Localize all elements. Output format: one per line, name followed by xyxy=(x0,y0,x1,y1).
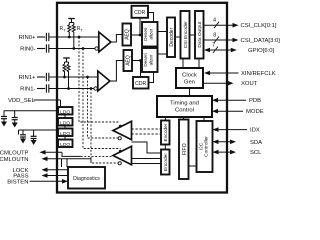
pin CMLOUTN xyxy=(0,157,64,163)
svg-text:Timing and: Timing and xyxy=(170,101,199,107)
CML driver B xyxy=(113,146,132,165)
supply rail 2 xyxy=(19,130,59,135)
wire CML A to Encoder1 xyxy=(132,142,162,153)
wire Encoder0 to Encoder1 xyxy=(164,145,166,150)
ground 2 xyxy=(12,123,18,128)
svg-text:MODE: MODE xyxy=(246,109,264,115)
block CSI Encoder xyxy=(181,11,190,59)
block Clock Gen xyxy=(176,68,203,88)
block Deserializer ch1 xyxy=(142,48,158,72)
dashed wires CML A to Encoder0 xyxy=(132,129,162,134)
wire Timing to Encoder0 xyxy=(165,117,167,121)
center tap cap ch1 xyxy=(63,58,70,62)
wire buffer0 to AEQ0 xyxy=(111,35,123,43)
wire Decoder to CSI Encoder xyxy=(175,36,181,38)
pin label SCL xyxy=(250,150,262,156)
wire RIN1- to buffer xyxy=(49,88,94,90)
pin VDD_SEL xyxy=(8,98,61,104)
block Diagnostics xyxy=(68,167,105,189)
pin RIN0- xyxy=(20,46,45,52)
bus slash 7 xyxy=(212,43,218,54)
wire RIN0- to buffer xyxy=(49,48,95,50)
svg-text:7: 7 xyxy=(212,43,215,49)
svg-text:IDX: IDX xyxy=(250,128,260,134)
wire Timing to I2C xyxy=(203,117,205,121)
node CDR1 junction xyxy=(139,59,142,77)
node dot RT right on RIN0- xyxy=(72,47,75,50)
node tap RIN0+ xyxy=(78,36,81,39)
svg-text:CMLOUTN: CMLOUTN xyxy=(0,157,29,163)
node tap RIN0- xyxy=(82,47,85,50)
wire VDD_SEL to LDO1 xyxy=(60,100,62,107)
svg-text:Decoder: Decoder xyxy=(169,27,175,46)
resistor RT right ch1 xyxy=(67,62,70,89)
pin CMLOUTP xyxy=(0,150,62,156)
node dot RT left on RIN0+ xyxy=(68,36,71,39)
wire RIN0+ to buffer xyxy=(49,36,99,38)
block Timing and Control xyxy=(157,96,212,117)
CML driver A xyxy=(113,121,132,140)
block FIFO xyxy=(179,120,189,180)
svg-text:Diagnostics: Diagnostics xyxy=(73,176,100,182)
svg-text:RIN1-: RIN1- xyxy=(20,86,35,92)
wire CML to Diagnostics xyxy=(62,159,68,167)
svg-text:Control: Control xyxy=(175,108,194,114)
wire buffer1 to AEQ1 xyxy=(110,61,124,82)
svg-text:RIN0+: RIN0+ xyxy=(19,35,36,41)
block Decoder xyxy=(167,18,175,58)
bypass cap 4 xyxy=(31,130,37,141)
svg-text:GPIO[6:0]: GPIO[6:0] xyxy=(248,48,275,54)
block LDO1 xyxy=(58,107,73,115)
pin label XOUT xyxy=(241,81,258,87)
pin label GPIO xyxy=(248,48,275,54)
bus slash 4 xyxy=(213,18,219,29)
svg-text:8: 8 xyxy=(213,33,216,39)
pin label IDX xyxy=(250,128,260,134)
svg-text:Controller: Controller xyxy=(204,136,210,157)
bypass cap 2 xyxy=(12,111,18,124)
wire LDO chain xyxy=(64,115,66,140)
svg-text:alizer: alizer xyxy=(148,28,153,39)
block Encoder0 xyxy=(161,121,170,145)
pin RIN1+ xyxy=(19,75,46,81)
svg-text:CDR: CDR xyxy=(134,10,145,16)
svg-text:FIFO: FIFO xyxy=(182,143,188,155)
wire CSI Encoder to Clock Gen xyxy=(182,59,184,69)
label RT left xyxy=(60,26,67,32)
svg-text:AEQ: AEQ xyxy=(126,55,132,66)
svg-text:CSI_DATA[3:0]: CSI_DATA[3:0] xyxy=(241,38,281,44)
block AEQ ch0 xyxy=(123,24,132,46)
svg-text:Gen: Gen xyxy=(184,80,195,86)
wire SDA bidirectional xyxy=(213,140,237,145)
pin RIN1- xyxy=(20,86,45,92)
block LDO3 xyxy=(58,129,73,137)
svg-text:alizer: alizer xyxy=(148,54,153,65)
wire CSI Encoder to Data Output xyxy=(190,34,196,36)
wire XIN/REFCLK in xyxy=(204,71,239,76)
label RT right xyxy=(77,26,84,32)
capacitor coupling RIN0+ xyxy=(46,33,48,41)
svg-text:Clock: Clock xyxy=(182,73,197,79)
wire SCL bidirectional xyxy=(213,150,237,155)
wire FIFO to I2C xyxy=(189,165,197,167)
pin label SDA xyxy=(250,140,262,146)
wire Deserializer0 to Decoder xyxy=(158,31,168,33)
pin PASS xyxy=(13,173,68,179)
wire CMLOUTN to driver xyxy=(64,159,91,163)
svg-text:Encoder: Encoder xyxy=(163,153,169,171)
wire RIN1+ to buffer xyxy=(49,76,98,78)
resistor RT left ch1 xyxy=(63,62,66,77)
svg-text:RIN1+: RIN1+ xyxy=(19,75,36,81)
resistor RT right ch0 xyxy=(72,23,75,49)
input buffer ch1 xyxy=(94,71,110,91)
block LDO4 xyxy=(58,140,73,148)
ground 3 xyxy=(20,139,26,144)
svg-text:VDD_SEL: VDD_SEL xyxy=(8,98,36,104)
svg-text:Encoder: Encoder xyxy=(163,123,169,141)
svg-text:XOUT: XOUT xyxy=(241,81,258,87)
pin RIN0+ xyxy=(19,35,46,41)
svg-text:BISTEN: BISTEN xyxy=(7,179,28,185)
node CDR0 junction xyxy=(139,18,142,36)
svg-text:CDR: CDR xyxy=(135,81,146,87)
pin label XIN/REFCLK xyxy=(241,71,276,77)
wire PDB in xyxy=(212,98,246,103)
wire AEQ1 to Deserializer1 xyxy=(132,60,142,62)
svg-text:I2C: I2C xyxy=(199,142,205,150)
ground 1 xyxy=(1,122,7,127)
svg-text:4: 4 xyxy=(213,18,216,24)
svg-text:CMLOUTP: CMLOUTP xyxy=(0,150,29,156)
wire Timing to FIFO xyxy=(183,117,185,120)
block AEQ ch1 xyxy=(124,50,133,71)
node dot RT right on RIN1- xyxy=(67,87,70,90)
block Deserializer ch0 xyxy=(142,22,158,47)
pin BISTEN xyxy=(7,179,68,185)
pin label CSI_CLK xyxy=(241,23,277,29)
wire CSI_DATA out xyxy=(204,38,239,43)
node tap RIN1- xyxy=(90,87,93,90)
pin LOCK xyxy=(12,168,68,174)
block CDR ch1 xyxy=(133,77,149,89)
pin label MODE xyxy=(246,109,264,115)
svg-text:SDA: SDA xyxy=(250,140,262,146)
node dot RT left on RIN1+ xyxy=(63,76,66,79)
dashed rail from RIN0+ tap xyxy=(79,37,120,122)
input buffer ch0 xyxy=(95,32,111,52)
block I2C Controller xyxy=(197,121,213,172)
capacitor coupling RIN0- xyxy=(46,44,48,52)
wire GPIO bidirectional xyxy=(204,48,237,53)
ground 4 xyxy=(31,140,37,145)
pin label CSI_DATA xyxy=(241,38,281,44)
wire Deserializer1 to Decoder xyxy=(158,53,168,55)
svg-text:PDB: PDB xyxy=(249,98,261,104)
dashed rail from RIN1- tap xyxy=(91,89,120,164)
center tap cap ch0 xyxy=(68,19,75,23)
svg-text:SCL: SCL xyxy=(250,150,262,156)
wire CDR1 to Deserializer1 xyxy=(149,72,154,83)
svg-text:Data Output: Data Output xyxy=(197,21,203,48)
chip outline xyxy=(57,3,227,193)
wire XOUT out xyxy=(203,81,234,86)
capacitor coupling RIN1+ xyxy=(46,73,48,81)
dashed rail from RIN0- tap xyxy=(83,49,121,149)
block Data Output xyxy=(195,11,204,59)
svg-text:XIN/REFCLK: XIN/REFCLK xyxy=(241,71,276,77)
node tap RIN1+ xyxy=(86,76,89,79)
wire MODE in xyxy=(212,109,243,114)
wire AEQ0 to Deserializer0 xyxy=(131,34,142,36)
pin label PDB xyxy=(249,98,261,104)
svg-text:RIN0-: RIN0- xyxy=(20,46,35,52)
svg-text:CSI_CLK[0:1]: CSI_CLK[0:1] xyxy=(241,23,277,29)
wire IDX in xyxy=(213,127,248,132)
wire Data Output to Clock Gen xyxy=(198,59,200,69)
wire CML B to Encoder1 xyxy=(132,159,162,164)
block LDO2 xyxy=(58,118,73,126)
dashed rail from RIN1+ tap xyxy=(88,77,120,138)
svg-text:AEQ: AEQ xyxy=(125,29,131,40)
wire Clock Gen to Timing xyxy=(189,88,191,96)
wire CDR0 to Deserializer0 xyxy=(148,13,154,23)
bypass cap 1 xyxy=(1,111,7,123)
svg-text:CSI Encoder: CSI Encoder xyxy=(183,21,189,49)
wire CSI_CLK out xyxy=(204,23,239,28)
wire CMLOUTP to driver xyxy=(62,152,113,156)
capacitor coupling RIN1- xyxy=(46,84,48,92)
bypass cap 3 xyxy=(20,130,26,140)
bus slash 8 xyxy=(213,33,219,44)
block CDR ch0 xyxy=(132,6,149,18)
supply rail 1 xyxy=(4,110,58,112)
svg-text:LDO: LDO xyxy=(60,142,70,148)
block Encoder1 xyxy=(161,150,170,175)
resistor RT left ch0 xyxy=(68,23,71,38)
